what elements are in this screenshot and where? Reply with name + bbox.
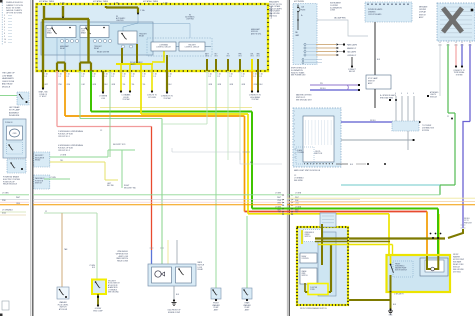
svg-text:MAIN LIGHT SWITCH MODULE: MAIN LIGHT SWITCH MODULE: [294, 169, 321, 172]
svg-text:LT GRN: LT GRN: [50, 177, 57, 179]
svg-text:RELAY MODULE: RELAY MODULE: [3, 183, 18, 186]
svg-text:LT GRN: LT GRN: [2, 193, 9, 195]
svg-text:SEE GRND: SEE GRND: [294, 180, 304, 182]
svg-text:LT HDLP: LT HDLP: [40, 96, 48, 98]
svg-text:MOTOR PUMP: MOTOR PUMP: [453, 259, 464, 261]
svg-text:INTERIOR LAMPS: INTERIOR LAMPS: [368, 8, 383, 11]
svg-text:CABINET OF NON: CABINET OF NON: [6, 4, 24, 7]
svg-text:SYSTEM: SYSTEM: [164, 98, 172, 100]
svg-text:YEL: YEL: [295, 212, 298, 214]
svg-text:87 B: 87 B: [256, 55, 259, 57]
svg-text:WINDSHIELD: WINDSHIELD: [395, 266, 405, 268]
svg-text:SEE GROUND: SEE GROUND: [453, 269, 465, 271]
svg-text:SECURITY IND: SECURITY IND: [124, 187, 137, 189]
svg-text:6: 6: [4, 27, 5, 29]
svg-text:YEL: YEL: [132, 84, 135, 86]
svg-text:WHEN A VEHICLE: WHEN A VEHICLE: [6, 1, 24, 4]
svg-text:THE CASE OF: THE CASE OF: [2, 72, 15, 75]
svg-text:SYSTEM: SYSTEM: [422, 130, 430, 132]
svg-text:B: B: [401, 93, 402, 95]
svg-text:DRL: DRL: [250, 54, 253, 56]
svg-text:B: B: [470, 42, 471, 44]
svg-text:SWITCH: SWITCH: [302, 275, 308, 277]
svg-text:LIGHTING: LIGHTING: [186, 19, 194, 21]
svg-text:LT GRN: LT GRN: [275, 193, 282, 195]
svg-text:SYSTEM: SYSTEM: [456, 74, 463, 76]
svg-text:SECURITY SYS: SECURITY SYS: [113, 144, 126, 146]
svg-text:DK BLU: DK BLU: [464, 218, 471, 220]
svg-text:LT GRN: LT GRN: [60, 155, 67, 157]
svg-text:FRONT: FRONT: [395, 264, 400, 266]
svg-text:10: 10: [294, 149, 296, 151]
svg-text:C2: C2: [100, 130, 102, 132]
svg-text:MOTOR SWITCH: MOTOR SWITCH: [395, 270, 407, 272]
svg-text:B: B: [448, 42, 449, 44]
svg-text:C2: C2: [447, 116, 449, 118]
svg-text:MODULE: MODULE: [251, 31, 258, 33]
svg-text:CONNECT: CONNECT: [348, 69, 356, 71]
svg-text:HOT AT ALL TIMES: HOT AT ALL TIMES: [93, 0, 109, 3]
svg-text:DK BLU: DK BLU: [370, 120, 377, 122]
svg-text:LOW: LOW: [47, 31, 51, 33]
svg-text:DISPLAY: DISPLAY: [419, 11, 427, 14]
svg-text:LOW BEAM: LOW BEAM: [2, 74, 13, 77]
svg-text:SYS GRN: SYS GRN: [148, 97, 156, 99]
svg-text:MODULE: MODULE: [2, 87, 11, 89]
svg-text:FUNCTION: FUNCTION: [314, 153, 323, 155]
svg-text:87 B: 87 B: [205, 55, 208, 57]
svg-text:WHT: WHT: [277, 197, 281, 199]
svg-text:RLY: RLY: [215, 54, 218, 56]
svg-text:BLK: BLK: [250, 162, 253, 164]
svg-text:CIRCUIT OF SYS: CIRCUIT OF SYS: [269, 4, 282, 6]
svg-text:SEE GROUND DIST: SEE GROUND DIST: [296, 100, 312, 102]
svg-text:3: 3: [4, 18, 5, 20]
svg-text:LT GRN/BLK: LT GRN/BLK: [108, 289, 118, 291]
svg-text:CONTROL CIRCUIT: CONTROL CIRCUIT: [156, 47, 171, 49]
svg-text:SYSTEM: SYSTEM: [252, 99, 260, 101]
svg-text:HOT IN RUN: HOT IN RUN: [294, 1, 305, 3]
svg-text:PUSH IN: PUSH IN: [5, 122, 13, 124]
svg-text:OF THE SYSTEM: OF THE SYSTEM: [6, 13, 22, 15]
svg-text:87 B: 87 B: [250, 55, 253, 57]
svg-text:C SECURITY: C SECURITY: [394, 294, 405, 296]
svg-text:87 B: 87 B: [214, 55, 217, 57]
svg-text:TWILIGHT: TWILIGHT: [188, 45, 196, 47]
svg-text:9: 9: [4, 36, 5, 38]
svg-text:HOOD SWITCH: HOOD SWITCH: [108, 283, 120, 285]
svg-text:FUSE: FUSE: [301, 10, 305, 12]
svg-text:TWILIGHT: TWILIGHT: [94, 46, 102, 48]
svg-text:B: B: [440, 42, 441, 44]
svg-text:LIGHTING: LIGHTING: [116, 20, 124, 22]
svg-text:CONN: CONN: [310, 289, 314, 291]
svg-text:PPL: PPL: [320, 83, 323, 85]
svg-text:5: 5: [4, 24, 5, 26]
svg-text:HOT AT ALL TIMES: HOT AT ALL TIMES: [143, 0, 159, 3]
svg-text:RELAY: RELAY: [35, 159, 41, 162]
svg-text:SWITCH: SWITCH: [305, 236, 311, 238]
svg-text:FRONT WIPER/WASHER SWITCH: FRONT WIPER/WASHER SWITCH: [300, 307, 327, 310]
svg-text:IN FAILURE: IN FAILURE: [9, 114, 20, 117]
svg-text:CHECK FUSE: CHECK FUSE: [2, 81, 15, 83]
svg-text:CIRCUIT BOARD: CIRCUIT BOARD: [368, 13, 382, 16]
svg-text:MODULE: MODULE: [453, 267, 460, 269]
svg-text:B: B: [395, 93, 396, 95]
svg-text:WIPE: WIPE: [302, 273, 306, 275]
svg-text:SEE GROUND: SEE GROUND: [108, 292, 120, 294]
svg-text:RELAY: RELAY: [198, 268, 204, 271]
svg-text:BLK: BLK: [350, 164, 353, 166]
svg-text:BRN: BRN: [2, 213, 7, 215]
svg-text:BELOW: BELOW: [349, 71, 355, 73]
svg-text:LT GRN: LT GRN: [275, 206, 282, 208]
svg-text:LT GRN: LT GRN: [295, 193, 302, 195]
svg-text:DIST G301: DIST G301: [453, 272, 461, 274]
svg-text:LIGHTS: LIGHTS: [430, 94, 436, 96]
svg-text:PWR DIST: PWR DIST: [464, 222, 472, 224]
svg-text:B+: B+: [301, 15, 303, 17]
svg-text:BLK: BLK: [92, 267, 95, 269]
svg-text:B: B: [407, 93, 408, 95]
svg-text:MODULE: MODULE: [430, 96, 437, 98]
svg-text:C2 TO: C2 TO: [464, 220, 469, 222]
svg-text:4: 4: [4, 21, 5, 23]
svg-text:ORG: ORG: [16, 203, 21, 205]
svg-text:ENGINE COMP: ENGINE COMP: [168, 312, 181, 314]
svg-text:YEL: YEL: [60, 160, 63, 162]
svg-text:AND RELAY: AND RELAY: [2, 83, 13, 86]
svg-text:GAUGE CLAMPS: GAUGE CLAMPS: [6, 9, 23, 12]
svg-text:CONTROL: CONTROL: [302, 258, 309, 260]
svg-text:STOP LAMP: STOP LAMP: [9, 109, 20, 112]
svg-text:87 B: 87 B: [238, 55, 241, 57]
svg-text:PRK: PRK: [238, 54, 241, 56]
svg-text:ENG COMP: ENG COMP: [93, 310, 103, 312]
svg-text:LT GRN: LT GRN: [295, 206, 302, 208]
svg-text:AT FILLER: AT FILLER: [59, 308, 68, 311]
svg-text:8: 8: [4, 33, 5, 35]
svg-text:SWITCH: SWITCH: [35, 183, 42, 185]
svg-text:SEE POWER DIST: SEE POWER DIST: [291, 75, 306, 77]
svg-text:CONN: CONN: [330, 10, 336, 12]
svg-text:CMD: CMD: [12, 133, 17, 135]
svg-text:B: B: [413, 93, 414, 95]
svg-text:SEE GROUND: SEE GROUND: [269, 13, 281, 15]
svg-text:SECURITY: SECURITY: [108, 281, 117, 283]
svg-text:LOW: LOW: [81, 31, 85, 33]
svg-text:LEFT REAR: LEFT REAR: [9, 106, 20, 109]
svg-text:B: B: [456, 42, 457, 44]
svg-text:MULTI-: MULTI-: [315, 151, 321, 153]
svg-text:ASSEMBLY: ASSEMBLY: [9, 111, 20, 114]
svg-text:RELAY CONN: RELAY CONN: [117, 260, 129, 263]
svg-text:10: 10: [4, 39, 6, 41]
svg-text:C2: C2: [45, 211, 47, 213]
svg-text:LICENSE LP: LICENSE LP: [347, 55, 356, 57]
svg-text:FRONT: FRONT: [453, 254, 459, 256]
svg-text:MESSAGE: MESSAGE: [419, 6, 428, 9]
svg-text:YEL: YEL: [278, 212, 281, 214]
svg-text:CONNECTS TO: CONNECTS TO: [453, 70, 465, 72]
svg-text:MASTER LIGHTING: MASTER LIGHTING: [296, 94, 312, 97]
svg-text:12: 12: [294, 157, 296, 159]
svg-text:LT GRN/BLK: LT GRN/BLK: [2, 210, 14, 212]
svg-text:CIRCUIT NO 2: CIRCUIT NO 2: [58, 150, 70, 152]
svg-text:YEL: YEL: [143, 84, 146, 86]
svg-text:LT GRN/: LT GRN/: [89, 265, 95, 267]
svg-text:7: 7: [4, 30, 5, 32]
svg-text:11: 11: [4, 42, 6, 44]
svg-text:DK BLU: DK BLU: [320, 88, 327, 90]
svg-text:CONTROL CIRCUIT: CONTROL CIRCUIT: [185, 47, 200, 49]
svg-text:11: 11: [294, 153, 296, 155]
svg-text:ORG: ORG: [277, 203, 282, 205]
svg-text:WINDSHIELD: WINDSHIELD: [305, 232, 315, 234]
svg-text:2: 2: [4, 15, 5, 17]
svg-text:YEL: YEL: [123, 84, 126, 86]
svg-text:TWILIGHT: TWILIGHT: [139, 34, 147, 36]
svg-text:HOT AT ALL TIMES: HOT AT ALL TIMES: [39, 0, 55, 3]
svg-text:CIRCUIT NO 1: CIRCUIT NO 1: [58, 136, 70, 138]
svg-text:87 B: 87 B: [226, 55, 229, 57]
svg-text:DIST G104: DIST G104: [269, 15, 277, 17]
svg-text:HEADLAMPS: HEADLAMPS: [2, 77, 14, 80]
svg-text:SYSTEM: SYSTEM: [123, 99, 131, 101]
svg-text:B: B: [462, 42, 463, 44]
svg-text:SEC IND: SEC IND: [107, 185, 115, 187]
svg-text:CLUSTER: CLUSTER: [310, 287, 318, 289]
